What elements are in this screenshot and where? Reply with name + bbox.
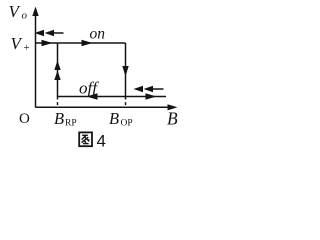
- svg-text:B: B: [54, 109, 64, 128]
- arrowhead up on B_RP rising edge #2: [54, 71, 60, 81]
- svg-text:B: B: [167, 109, 178, 129]
- wire upper branch at V+ level: [36, 42, 126, 44]
- svg-text:OP: OP: [121, 119, 133, 129]
- svg-text:off: off: [79, 79, 99, 98]
- wire lower branch (off level): [58, 96, 167, 98]
- svg-text:O: O: [19, 111, 30, 127]
- arrowhead y-axis tip: [32, 7, 38, 17]
- arrowhead right on upper branch (on path): [82, 40, 93, 47]
- svg-text:on: on: [90, 26, 106, 43]
- arrowhead left double upper #2: [45, 30, 55, 36]
- svg-text:+: +: [24, 42, 30, 54]
- x-axis: [36, 106, 173, 108]
- svg-text:B: B: [109, 109, 119, 128]
- arrowhead right on upper branch left of B_RP: [42, 40, 53, 47]
- wire tail of left double-arrow upper: [53, 32, 64, 34]
- arrowhead left double lower #1: [134, 86, 144, 92]
- arrowhead x-axis tip: [168, 104, 178, 110]
- arrowhead right on lower branch right of B_OP: [146, 93, 157, 100]
- arrowhead left on lower branch (off path): [87, 93, 98, 100]
- wire falling edge at B_OP: [125, 43, 127, 97]
- wire rising edge at B_RP: [57, 43, 59, 97]
- label CJK character tu (figure) drawn as strokes: [79, 132, 92, 146]
- arrowhead down on B_OP falling edge: [122, 66, 128, 77]
- arrowhead left double lower #2: [144, 86, 154, 92]
- arrowhead left double upper #1: [35, 30, 45, 36]
- dashed marker at B_OP: [125, 97, 127, 108]
- y-axis: [35, 10, 37, 108]
- dashed marker at B_RP: [57, 97, 59, 108]
- svg-text:o: o: [22, 10, 28, 22]
- svg-text:RP: RP: [65, 119, 77, 129]
- arrowhead up on B_RP rising edge #1: [54, 61, 60, 71]
- svg-text:4: 4: [97, 132, 106, 151]
- wire tail of left double-arrow lower: [152, 88, 164, 90]
